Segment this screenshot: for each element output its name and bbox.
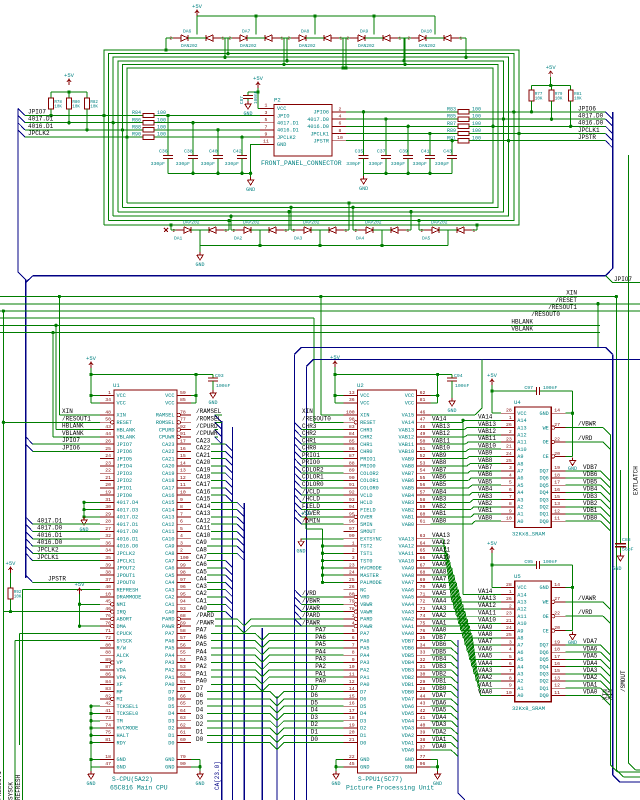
svg-text:65: 65 xyxy=(420,548,426,554)
ground left cap rail xyxy=(250,173,252,177)
U2 pin 43 VDA6 xyxy=(417,705,431,707)
svg-text:GND: GND xyxy=(331,781,340,787)
svg-text:/CPUWR: /CPUWR xyxy=(196,430,218,437)
svg-text:330pF: 330pF xyxy=(176,161,191,167)
svg-text:98: 98 xyxy=(180,570,186,576)
svg-text:CA10: CA10 xyxy=(162,536,174,542)
U2 pin 84 CHR2 xyxy=(344,436,358,438)
svg-text:CHR0: CHR0 xyxy=(302,445,317,452)
svg-text:41: 41 xyxy=(105,708,111,714)
U1 pin 37 JPOUT0 xyxy=(100,581,114,583)
svg-text:PA6: PA6 xyxy=(315,634,326,641)
svg-text:VA14: VA14 xyxy=(432,415,447,422)
svg-text:87: 87 xyxy=(105,664,111,670)
svg-text:VDB6: VDB6 xyxy=(402,646,414,652)
U1 pin 12 CA18 xyxy=(177,480,191,482)
svg-text:CA16: CA16 xyxy=(162,493,174,499)
svg-text:R86: R86 xyxy=(132,117,141,123)
svg-text:7: 7 xyxy=(265,124,268,130)
svg-text:81: 81 xyxy=(420,397,426,403)
svg-text:3: 3 xyxy=(352,613,355,619)
svg-text:VAA7: VAA7 xyxy=(402,580,414,586)
svg-text:CHR1: CHR1 xyxy=(360,442,372,448)
svg-text:VRD: VRD xyxy=(360,595,369,601)
U2 pin 99 EXTSYNC xyxy=(344,538,358,540)
U1 pin 93 CA0 xyxy=(177,611,191,613)
svg-text:A9: A9 xyxy=(517,628,523,634)
svg-text:20: 20 xyxy=(349,730,355,736)
P2 pin 7 4016.D1 xyxy=(260,129,274,131)
svg-text:66: 66 xyxy=(420,555,426,561)
U5 pin 10 A0 xyxy=(501,694,515,696)
U5 pin 23 A11 xyxy=(501,615,515,617)
svg-text:XIN: XIN xyxy=(117,413,126,419)
svg-text:DQ3: DQ3 xyxy=(539,672,548,678)
svg-text:PARD: PARD xyxy=(162,617,174,623)
svg-text:23: 23 xyxy=(349,562,355,568)
svg-text:53: 53 xyxy=(420,460,426,466)
svg-text:18: 18 xyxy=(554,472,560,478)
svg-text:RESET: RESET xyxy=(360,420,376,426)
svg-text:85: 85 xyxy=(180,397,186,403)
U1 pin 3 CA9 xyxy=(177,545,191,547)
U2 pin 96 GND xyxy=(417,766,431,768)
svg-text:99: 99 xyxy=(349,533,355,539)
svg-text:2: 2 xyxy=(180,548,183,554)
svg-text:4: 4 xyxy=(352,621,355,627)
svg-text:GND: GND xyxy=(195,781,204,787)
svg-text:DAN202: DAN202 xyxy=(240,43,257,49)
U2 pin 80 VRD xyxy=(344,596,355,598)
svg-text:DQ2: DQ2 xyxy=(539,505,548,511)
svg-text:MASTER: MASTER xyxy=(360,573,379,579)
svg-text:45: 45 xyxy=(349,761,355,767)
svg-text:26: 26 xyxy=(506,596,512,602)
svg-text:4017.D1: 4017.D1 xyxy=(277,121,299,127)
svg-text:CA21: CA21 xyxy=(162,456,174,462)
svg-text:VAB2: VAB2 xyxy=(402,507,414,513)
svg-text:13: 13 xyxy=(349,390,355,396)
svg-text:CA15: CA15 xyxy=(162,500,174,506)
svg-text:44: 44 xyxy=(420,693,426,699)
wire P2 right row JPIO6 xyxy=(346,111,458,113)
svg-text:/VAWR: /VAWR xyxy=(578,595,596,602)
svg-text:9: 9 xyxy=(352,657,355,663)
svg-text:69: 69 xyxy=(420,577,426,583)
svg-text:14: 14 xyxy=(554,408,560,414)
wire VAB12 xyxy=(431,436,465,438)
U4 pin 1 A14 xyxy=(501,419,515,421)
svg-text:11: 11 xyxy=(263,139,269,145)
wire CA23 bus entry xyxy=(211,443,226,445)
wire /VRD U4 xyxy=(566,441,603,443)
bus right vertical top xyxy=(612,112,614,269)
svg-text:GND: GND xyxy=(405,765,414,771)
wire ring 5 xyxy=(127,68,493,203)
svg-text:VAB9: VAB9 xyxy=(402,456,414,462)
svg-text:P2: P2 xyxy=(274,97,281,104)
svg-text:GND: GND xyxy=(243,111,252,117)
resistor R89 100 xyxy=(458,131,469,135)
svg-text:FIELD: FIELD xyxy=(360,507,376,513)
svg-text:VDB6: VDB6 xyxy=(583,471,598,478)
svg-text:VDB5: VDB5 xyxy=(432,648,447,655)
svg-text:/RESOUT1: /RESOUT1 xyxy=(0,771,3,800)
U1 pin 71 CPUCK xyxy=(100,632,114,634)
svg-text:DQ6: DQ6 xyxy=(539,650,548,656)
wire VAA0 xyxy=(431,632,472,634)
svg-text:10K: 10K xyxy=(14,596,22,600)
wire CA1 bus entry xyxy=(207,603,225,605)
svg-text:DQ5: DQ5 xyxy=(539,657,548,663)
svg-text:GND: GND xyxy=(165,757,174,763)
svg-text:/VCLD: /VCLD xyxy=(302,488,320,495)
svg-text:U4: U4 xyxy=(514,399,521,406)
svg-text:2: 2 xyxy=(339,106,342,112)
svg-text:CA4: CA4 xyxy=(165,580,174,586)
U1 pin 99 CA6 xyxy=(177,567,191,569)
svg-text:VDB5: VDB5 xyxy=(583,478,598,485)
svg-text:A4: A4 xyxy=(517,664,523,670)
U1 pin 36 4016.D0 xyxy=(100,545,114,547)
svg-text:C95: C95 xyxy=(524,559,533,565)
wire VAB6 xyxy=(431,480,469,482)
svg-text:VAB11: VAB11 xyxy=(399,442,415,448)
U5 pin 6 A4 xyxy=(501,666,515,668)
svg-text:VAB13: VAB13 xyxy=(399,427,415,433)
U2 pin 83 CHR3 xyxy=(344,429,358,431)
wire VAA10 xyxy=(431,560,450,562)
U1 pin 47 GND xyxy=(100,766,114,768)
svg-text:77: 77 xyxy=(420,754,426,760)
svg-text:/PAWR: /PAWR xyxy=(302,619,320,626)
svg-text:TCKSEL0: TCKSEL0 xyxy=(117,711,139,717)
svg-text:62: 62 xyxy=(420,390,426,396)
svg-text:54: 54 xyxy=(420,468,426,474)
wire CA2 bus entry xyxy=(207,596,225,598)
svg-text:4017.D3: 4017.D3 xyxy=(117,507,139,513)
U2 pin 24 MASTER xyxy=(344,574,358,576)
svg-text:PA4: PA4 xyxy=(315,648,326,655)
U5 pin 2 A12 xyxy=(501,608,515,610)
U1 pin 64 D4 xyxy=(177,712,191,714)
wire VDA4 right xyxy=(566,666,601,668)
wire right collector vertical xyxy=(610,435,612,765)
U1 pin 75 HALT xyxy=(100,734,114,736)
svg-text:VAA12: VAA12 xyxy=(399,544,415,550)
wire VDB0 entry xyxy=(431,691,451,693)
U1 pin 8 CA14 xyxy=(177,509,191,511)
wire VDA1 entry xyxy=(431,742,451,744)
svg-text:CA14: CA14 xyxy=(162,507,174,513)
U2 pin 7 PA5 xyxy=(344,647,358,649)
svg-text:/PARD: /PARD xyxy=(302,612,320,619)
power +5V U1 xyxy=(90,362,92,368)
svg-text:71: 71 xyxy=(105,628,111,634)
svg-text:VAB13: VAB13 xyxy=(478,421,496,428)
bus entry U1 JPCLK1 xyxy=(26,553,33,560)
svg-text:VDB0: VDB0 xyxy=(432,685,447,692)
svg-text:/RESOUT0: /RESOUT0 xyxy=(302,415,331,422)
wire VAB0 xyxy=(431,523,472,525)
wire VDA1 right xyxy=(566,687,601,689)
svg-text:A4: A4 xyxy=(517,490,523,496)
wire DAN pin drops to rings xyxy=(165,38,167,50)
svg-text:70: 70 xyxy=(105,621,111,627)
svg-text:VAA5: VAA5 xyxy=(432,590,447,597)
svg-text:17: 17 xyxy=(554,654,560,660)
svg-text:34: 34 xyxy=(420,642,426,648)
svg-text:VDA3: VDA3 xyxy=(432,721,447,728)
ground U2 EXTSYNC xyxy=(301,538,344,540)
U1 pin 46 IRQ xyxy=(100,611,111,613)
U1 pin 14 CA20 xyxy=(177,465,191,467)
svg-text:29: 29 xyxy=(105,511,111,517)
svg-text:31: 31 xyxy=(420,664,426,670)
svg-text:26: 26 xyxy=(105,439,111,445)
svg-text:+5V: +5V xyxy=(546,64,557,71)
svg-text:6: 6 xyxy=(339,121,342,127)
svg-text:VDB0: VDB0 xyxy=(402,689,414,695)
capacitor C37 330pF xyxy=(384,117,387,120)
U4 pin 17 DQ5 xyxy=(551,484,565,486)
svg-text:CA7: CA7 xyxy=(165,558,174,564)
svg-text:18: 18 xyxy=(349,715,355,721)
svg-text:4016.D0: 4016.D0 xyxy=(307,124,329,130)
svg-text:60: 60 xyxy=(420,511,426,517)
svg-text:CE: CE xyxy=(543,628,549,634)
svg-text:R80: R80 xyxy=(72,101,80,105)
svg-text:4017.D0: 4017.D0 xyxy=(117,529,139,535)
svg-text:VAB10: VAB10 xyxy=(432,445,450,452)
U1 pin 2 CA8 xyxy=(177,552,191,554)
svg-text:VCC: VCC xyxy=(117,393,126,399)
ground C93 xyxy=(212,381,214,390)
U1 pin 23 JPIO4 xyxy=(100,465,114,467)
U2 pin 98 RESET xyxy=(344,421,355,423)
svg-text:A3: A3 xyxy=(517,497,523,503)
svg-text:D3: D3 xyxy=(196,714,204,721)
svg-text:CA13: CA13 xyxy=(196,510,211,517)
U1 pin 58 PA7 xyxy=(177,632,191,634)
bus entry U2 CHR0 xyxy=(295,444,302,451)
svg-text:DQ0: DQ0 xyxy=(539,693,548,699)
svg-text:VAB7: VAB7 xyxy=(402,471,414,477)
svg-text:10: 10 xyxy=(506,690,512,696)
svg-text:CHR2: CHR2 xyxy=(360,435,372,441)
svg-text:16: 16 xyxy=(349,701,355,707)
bus frame A left vertical xyxy=(294,354,296,800)
svg-text:CA15: CA15 xyxy=(196,496,211,503)
wire D6 xyxy=(207,699,344,706)
svg-text:10: 10 xyxy=(105,591,111,597)
svg-text:26: 26 xyxy=(349,584,355,590)
wire SYSCK xyxy=(15,640,100,642)
svg-text:DAP202: DAP202 xyxy=(303,220,320,226)
svg-text:JPSTR: JPSTR xyxy=(578,134,596,141)
wire XIN drop right xyxy=(615,295,618,298)
svg-text:37: 37 xyxy=(420,744,426,750)
bus entry U2 FIELD xyxy=(295,502,302,509)
ground U2 right xyxy=(437,771,439,774)
U1 pin 77 ROMSEL xyxy=(180,421,191,423)
svg-text:TST2: TST2 xyxy=(360,544,372,550)
wire CA11 bus entry xyxy=(211,530,237,532)
U4 pin 22 OE xyxy=(554,441,565,443)
svg-text:A2: A2 xyxy=(517,505,523,511)
U2 pin 14 D7 xyxy=(344,691,358,693)
U5 pin 11 DQ0 xyxy=(551,694,565,696)
U2 pin 19 D2 xyxy=(344,727,358,729)
svg-text:C41: C41 xyxy=(421,149,430,155)
wire VAA8 xyxy=(431,574,454,576)
svg-text:D5: D5 xyxy=(360,704,366,710)
svg-text:DAP202: DAP202 xyxy=(365,220,382,226)
U2 pin 51 VAB10 xyxy=(417,450,431,452)
svg-text:CA12: CA12 xyxy=(162,522,174,528)
svg-text:38: 38 xyxy=(420,737,426,743)
svg-text:VDA5: VDA5 xyxy=(583,653,598,660)
bus horizontal bevel left xyxy=(26,276,33,283)
U1 pin 94 CA1 xyxy=(177,603,191,605)
U1 pin 67 D7 xyxy=(177,691,191,693)
wire CA10 bus entry xyxy=(211,538,237,540)
svg-text:36: 36 xyxy=(105,540,111,546)
svg-text:A8: A8 xyxy=(517,636,523,642)
svg-text:86: 86 xyxy=(105,671,111,677)
svg-text:57: 57 xyxy=(420,489,426,495)
wire /VRD U5 xyxy=(566,615,603,617)
ground U1 4017 pins xyxy=(83,502,85,517)
bus entry U2 /PARD xyxy=(295,612,302,619)
U4 pin 13 DQ2 xyxy=(551,506,565,508)
wire JPSTR to bus xyxy=(469,140,606,142)
power +5V top rail xyxy=(196,10,198,16)
svg-text:25: 25 xyxy=(506,632,512,638)
wire PA1 xyxy=(211,677,344,684)
svg-text:2: 2 xyxy=(229,37,232,42)
P2 pin 2 JPIO6 xyxy=(332,111,346,113)
svg-text:D4: D4 xyxy=(196,707,204,714)
svg-text:D4: D4 xyxy=(360,711,366,717)
svg-text:XIN: XIN xyxy=(566,290,577,297)
wire VDB2 right xyxy=(566,506,601,508)
svg-text:5: 5 xyxy=(509,480,512,486)
bus entry U1 4017.D0 xyxy=(26,524,33,531)
svg-text:VAA2: VAA2 xyxy=(432,612,447,619)
svg-text:A6: A6 xyxy=(517,476,523,482)
wire band /RESOUT0 xyxy=(0,317,314,319)
capacitor C93 100nF xyxy=(212,375,214,379)
svg-text:JPIO7: JPIO7 xyxy=(614,276,632,283)
svg-text:R88: R88 xyxy=(132,125,141,131)
U4 pin 3 A7 xyxy=(501,470,515,472)
U5 pin 7 A3 xyxy=(501,673,515,675)
U5 pin 14 GND xyxy=(551,586,565,588)
svg-text:23: 23 xyxy=(506,436,512,442)
U2 pin 45 GND xyxy=(344,766,358,768)
wire right resistor rail xyxy=(532,85,571,87)
svg-text:55: 55 xyxy=(180,650,186,656)
wire PA7 xyxy=(211,633,344,640)
svg-text:68: 68 xyxy=(420,570,426,576)
svg-text:VDB2: VDB2 xyxy=(402,675,414,681)
ground U4 xyxy=(572,457,574,460)
U1 pin 78 RAMSEL xyxy=(180,414,191,416)
svg-text:PALMODE: PALMODE xyxy=(360,580,382,586)
svg-text:VDA6: VDA6 xyxy=(583,645,598,652)
bus entry U2 CHR3 xyxy=(295,422,302,429)
svg-text:D1: D1 xyxy=(168,733,174,739)
svg-text:JPOUT0: JPOUT0 xyxy=(117,580,136,586)
svg-text:7: 7 xyxy=(509,668,512,674)
wire diode center drops xyxy=(196,16,198,35)
svg-text:VAA6: VAA6 xyxy=(432,583,447,590)
wire PA2 xyxy=(211,670,344,677)
svg-text:C38: C38 xyxy=(184,149,193,155)
svg-text:FIELD: FIELD xyxy=(302,503,320,510)
wire left resistor rail xyxy=(51,91,87,93)
svg-text:JPIO7: JPIO7 xyxy=(28,109,46,116)
U2 pin 18 D3 xyxy=(344,720,358,722)
svg-text:C40: C40 xyxy=(209,149,218,155)
wire P2 right row 4017.D0 xyxy=(346,118,458,120)
svg-text:8: 8 xyxy=(352,650,355,656)
svg-text:C36: C36 xyxy=(159,149,168,155)
svg-text:CA21: CA21 xyxy=(196,452,211,459)
wire CA4 bus entry xyxy=(207,581,225,583)
svg-text:VDB3: VDB3 xyxy=(583,493,598,500)
U2 pin 89 COLOR2 xyxy=(344,472,358,474)
wire CA6 bus entry xyxy=(207,567,225,569)
diode DA1 DAP202 xyxy=(184,227,191,233)
svg-text:D6: D6 xyxy=(168,697,174,703)
bus entry U2 CHR1 xyxy=(295,437,302,444)
resistor R84 100 xyxy=(143,113,154,117)
svg-text:CA16: CA16 xyxy=(196,488,211,495)
svg-text:C94: C94 xyxy=(454,373,463,379)
svg-text:76: 76 xyxy=(420,628,426,634)
svg-text:35: 35 xyxy=(420,635,426,641)
U2 pin 5 PA7 xyxy=(344,632,358,634)
svg-text:78: 78 xyxy=(349,606,355,612)
wire VAB9 xyxy=(431,458,467,460)
svg-text:VAA12: VAA12 xyxy=(478,602,496,609)
wire band VBLANK xyxy=(0,332,600,334)
resistor R83 100 xyxy=(458,110,469,114)
IC U1 S-CPU(5A22) 65C816 Main CPU xyxy=(114,390,177,773)
wire U4 CE xyxy=(566,455,573,457)
bus entry left JPCLK2 xyxy=(18,130,25,137)
svg-text:JPCLK1: JPCLK1 xyxy=(37,554,59,561)
svg-text:1: 1 xyxy=(509,415,512,421)
svg-text:GND: GND xyxy=(86,781,95,787)
svg-text:4016.D0: 4016.D0 xyxy=(578,120,604,127)
svg-text:67: 67 xyxy=(420,562,426,568)
svg-text:71: 71 xyxy=(420,591,426,597)
svg-text:JPOUT2: JPOUT2 xyxy=(117,566,136,572)
U1 pin 1 VCC xyxy=(100,395,114,397)
svg-text:TCKSEL1: TCKSEL1 xyxy=(117,704,139,710)
U2 pin 21 D0 xyxy=(344,742,358,744)
U4 pin 12 DQ1 xyxy=(551,513,565,515)
svg-text:20: 20 xyxy=(554,451,560,457)
wire U2 VCC rail xyxy=(335,374,452,376)
svg-text:JPIO6: JPIO6 xyxy=(313,110,329,116)
U2 pin 94 FIELD xyxy=(344,509,358,511)
svg-text:15: 15 xyxy=(554,494,560,500)
svg-text:VDB4: VDB4 xyxy=(432,656,447,663)
